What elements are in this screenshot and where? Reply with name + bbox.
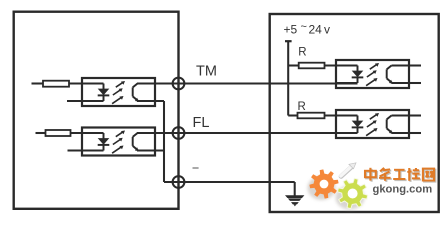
svg-text:FL: FL: [193, 115, 210, 131]
svg-text:R: R: [298, 101, 306, 113]
wire: row2 resistor to LED anode of U2: [71, 132, 104, 134]
terminal minus: [173, 176, 185, 188]
svg-text:R: R: [298, 47, 306, 59]
wire: minus net from bus through minus terminal to ground drop: [164, 181, 295, 183]
right enclosure box (drive input side): [270, 14, 439, 212]
wire: U4 collector output stub: [408, 114, 421, 116]
wire: row1 resistor to LED anode of U1: [69, 82, 104, 84]
watermark white arrow: [341, 163, 356, 177]
watermark text 中华工控网 (drawn strokes): [365, 168, 435, 182]
resistor R1 (upper right): [299, 63, 325, 69]
power rail vertical: [287, 41, 289, 115]
watermark green gear: [338, 178, 368, 208]
wire: ground drop vertical: [294, 182, 296, 196]
wire: row1 input stub to resistor: [32, 82, 44, 84]
optocoupler U2 (left, row2): [82, 128, 155, 156]
wire: U4 emitter output stub: [408, 132, 421, 134]
wire: U3 emitter output stub: [408, 82, 421, 84]
watermark orange gear: [309, 169, 338, 198]
watermark logo: gear shadows: [308, 176, 365, 210]
svg-text:~: ~: [301, 21, 307, 33]
svg-text:gkong.com: gkong.com: [373, 184, 433, 196]
wire: FL net from U2 collector through FL terminal to U4 LED cathode: [137, 132, 358, 134]
label minus: [193, 167, 199, 169]
wire: lower R to U4 LED anode: [325, 114, 358, 116]
svg-text:v: v: [324, 23, 330, 37]
optocoupler U3 (right, upper): [336, 60, 409, 88]
power rail +5~24v top bar: [285, 40, 292, 42]
optocoupler U1 (left, row1): [82, 78, 155, 106]
resistor R2 (lower right): [298, 113, 325, 119]
wire: row1 cathode return stub: [67, 100, 104, 102]
svg-text:TM: TM: [196, 64, 217, 80]
wire: row2 input stub to resistor: [36, 132, 46, 134]
wire: rail to resistor R (upper): [288, 64, 299, 66]
terminal TM: [173, 78, 185, 90]
wire: row2 cathode return stub: [68, 149, 104, 151]
svg-text:+5: +5: [284, 23, 298, 37]
terminal FL: [173, 127, 185, 139]
ground symbol: [285, 195, 304, 206]
resistor (left row1): [43, 81, 69, 87]
optocoupler U4 (right, lower): [336, 110, 409, 138]
wire: upper R to U3 LED anode: [325, 64, 358, 66]
resistor (left row2): [46, 130, 71, 136]
wire: rail to resistor R (lower): [288, 114, 297, 116]
wire: U3 collector output stub: [408, 64, 421, 66]
svg-text:24: 24: [309, 23, 323, 37]
wire: TM net from U1 collector through TM terminal to U3 LED cathode: [137, 82, 358, 84]
wire: U1 emitter to common bus: [137, 100, 164, 102]
wire: common bus vertical: [163, 101, 165, 182]
left enclosure box (driver side): [14, 12, 179, 209]
wire: U2 emitter to common bus: [137, 149, 164, 151]
